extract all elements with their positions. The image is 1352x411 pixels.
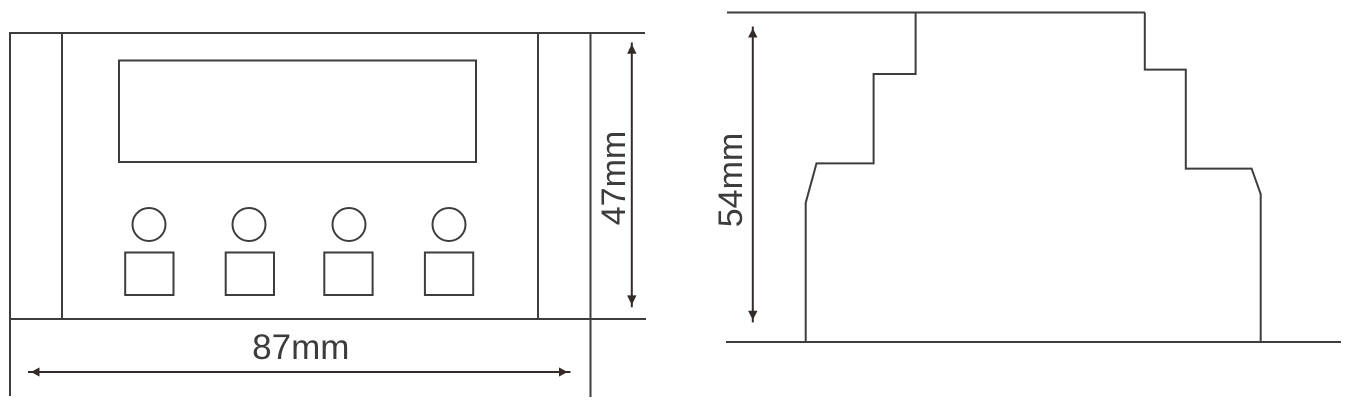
svg-text:54mm: 54mm [712,133,750,227]
svg-text:87mm: 87mm [252,328,349,367]
svg-text:47mm: 47mm [595,131,633,225]
